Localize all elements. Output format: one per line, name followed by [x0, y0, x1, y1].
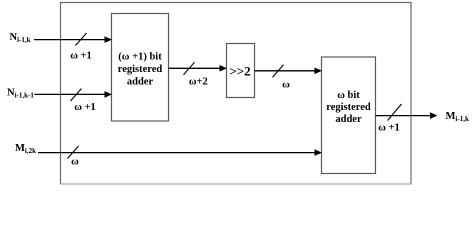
wire input N(i-1,k) to U1	[34, 39, 105, 41]
enclosure box right edge	[410, 2, 412, 185]
svg-text:adder: adder	[335, 114, 362, 125]
svg-text:adder: adder	[127, 77, 154, 88]
bus-width slash on M(i,2k) wire	[68, 146, 79, 159]
svg-text:ω bit: ω bit	[337, 90, 360, 101]
wire U1 output to U2	[169, 67, 221, 69]
svg-text:ω: ω	[282, 79, 290, 90]
svg-text:ω +1: ω +1	[74, 102, 96, 113]
bus-width slash on U2 output wire	[273, 65, 284, 78]
wire input N(i-1,k-1) to U1	[35, 93, 106, 95]
svg-text:>>2: >>2	[229, 64, 250, 79]
svg-text:(ω +1) bit: (ω +1) bit	[118, 52, 162, 63]
svg-text:ω+2: ω+2	[189, 77, 208, 88]
bus-width slash on N(i-1,k) wire	[76, 33, 87, 46]
arrowhead into U2	[220, 65, 228, 72]
enclosure box left edge	[60, 2, 62, 185]
enclosure box bottom edge	[60, 183, 412, 185]
svg-text:registered: registered	[118, 64, 163, 75]
adder U1 box ((w+1) bit registered adder)	[112, 14, 169, 122]
bus-width slash on U1 output wire	[184, 62, 195, 75]
arrowhead into U1 pin A	[105, 36, 113, 43]
svg-text:registered: registered	[326, 102, 371, 113]
svg-text:ω +1: ω +1	[70, 50, 92, 61]
arrowhead into U3 pin A	[315, 68, 323, 75]
bus-width slash on output wire	[388, 104, 402, 121]
arrowhead into U3 pin B	[315, 149, 323, 156]
wire U2 output to U3	[255, 70, 316, 72]
arrowhead at output	[430, 112, 438, 119]
wire U3 output to M(i-1,k)	[376, 115, 431, 117]
enclosure box (cell boundary) top edge	[60, 2, 412, 4]
adder U3 box (w bit registered adder)	[322, 57, 376, 174]
bus-width slash on N(i-1,k-1) wire	[71, 89, 82, 102]
svg-text:ω: ω	[71, 156, 79, 167]
wire input M(i,2k) to U3	[38, 152, 315, 154]
shifter U2 box (>>2)	[227, 44, 255, 98]
arrowhead into U1 pin B	[105, 91, 113, 98]
svg-text:ω +1: ω +1	[378, 122, 400, 133]
